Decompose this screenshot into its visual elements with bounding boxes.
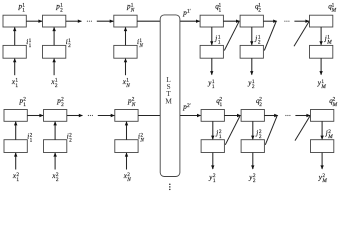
wire ellipsis to pN^1: [97, 20, 114, 22]
svg-text:M: M: [320, 84, 326, 90]
svg-text:1: 1: [219, 8, 222, 14]
svg-text:1: 1: [220, 102, 223, 108]
wire x2^1 to i2^1: [53, 59, 55, 75]
svg-text:N: N: [126, 177, 131, 183]
wire feedback from ellipsis to qM^2: [295, 116, 310, 141]
svg-text:M: M: [331, 8, 337, 14]
svg-text:2′: 2′: [187, 103, 191, 109]
svg-text:1: 1: [212, 84, 215, 90]
wire ellipsis to qM^1: [294, 20, 309, 22]
svg-text:M: M: [327, 134, 333, 140]
svg-text:N: N: [130, 8, 135, 14]
decoder hidden box q1^2: [201, 110, 224, 122]
LSTM block: [160, 15, 180, 177]
svg-text:1: 1: [29, 43, 32, 49]
svg-text:1: 1: [219, 134, 222, 140]
svg-text:2: 2: [61, 102, 64, 108]
wire x2^2 to i2^2: [54, 153, 56, 170]
svg-text:2: 2: [68, 43, 71, 49]
wire q1^2 to q2^2: [224, 115, 240, 117]
svg-text:M: M: [321, 178, 327, 184]
svg-text:j: j: [215, 129, 218, 137]
encoder hidden box p2^2: [44, 110, 67, 122]
decoder output box j1^1: [200, 45, 223, 58]
svg-text:2: 2: [69, 137, 72, 143]
wire LSTM to q1^1 (p^1 prime): [180, 20, 200, 22]
svg-text:M: M: [326, 40, 332, 46]
vertical ellipsis below LSTM: [169, 183, 171, 185]
wire qM^2 to jM^2: [321, 121, 323, 139]
svg-text:1: 1: [22, 8, 25, 14]
svg-text:2: 2: [55, 83, 58, 89]
wire qM^1 to jM^1: [320, 27, 322, 45]
wire q2^2 to j2^2: [252, 121, 254, 139]
ellipsis between p2^2 and pN^2: [88, 115, 89, 116]
wire x1^2 to i1^2: [15, 153, 17, 170]
wire j2^2 to y2^2: [252, 153, 254, 170]
svg-text:2: 2: [259, 102, 262, 108]
encoder input box i2^1: [43, 45, 66, 58]
wire feedback j2^1 to ellipsis: [264, 22, 276, 51]
svg-text:j: j: [254, 35, 257, 43]
wire j1^2 to y1^2: [212, 153, 214, 170]
ellipsis between p2^1 and pN^1: [87, 21, 88, 22]
decoder hidden box qM^1: [310, 15, 333, 27]
encoder hidden box p2^1: [43, 15, 66, 27]
wire q1^1 to j1^1: [211, 27, 213, 45]
svg-text:2: 2: [259, 134, 262, 140]
wire q2^1 to j2^1: [251, 27, 253, 45]
svg-text:M: M: [165, 96, 172, 105]
svg-text:2: 2: [258, 8, 261, 14]
svg-text:1′: 1′: [187, 9, 191, 15]
wire feedback j1^1 to q2^1: [224, 22, 239, 51]
wire iN^1 to pN^1: [125, 28, 127, 46]
wire p2^1 to ellipsis: [66, 20, 82, 22]
svg-text:1: 1: [218, 40, 221, 46]
wire p1^2 to p2^2: [27, 115, 43, 117]
svg-text:1: 1: [23, 102, 26, 108]
wire xN^2 to iN^2: [126, 153, 128, 170]
encoder hidden box pN^1: [114, 15, 137, 27]
decoder output box j1^2: [201, 140, 224, 153]
svg-text:N: N: [125, 83, 130, 89]
wire i1^1 to p1^1: [14, 28, 16, 46]
encoder input box i2^2: [44, 140, 67, 153]
wire ellipsis to pN^2: [98, 115, 115, 117]
decoder output box jM^1: [310, 45, 333, 58]
svg-text:1: 1: [213, 178, 216, 184]
decoder hidden box q2^2: [241, 110, 264, 122]
wire feedback j1^2 to q2^2: [225, 116, 240, 145]
wire ellipsis to qM^2: [295, 115, 310, 117]
wire i2^1 to p2^1: [53, 28, 55, 46]
ellipsis between q2^1 and qM^1: [284, 21, 285, 22]
decoder output box jM^2: [311, 140, 334, 153]
encoder hidden box p1^2: [4, 110, 27, 122]
svg-text:2: 2: [56, 177, 59, 183]
svg-text:1: 1: [16, 177, 19, 183]
svg-text:j: j: [325, 129, 328, 137]
decoder hidden box q1^1: [200, 15, 223, 27]
svg-text:1: 1: [30, 137, 33, 143]
svg-text:j: j: [255, 129, 258, 137]
wire xN^1 to iN^1: [125, 59, 127, 75]
wire i2^2 to p2^2: [54, 122, 56, 140]
wire q2^1 to ellipsis: [263, 20, 276, 22]
svg-text:j: j: [324, 35, 327, 43]
wire feedback j2^2 to ellipsis: [265, 116, 277, 145]
decoder hidden box qM^2: [311, 110, 334, 122]
wire iN^2 to pN^2: [126, 122, 128, 140]
wire jM^2 to yM^2: [321, 153, 323, 170]
decoder output box j2^2: [241, 140, 264, 153]
wire pN^2 to LSTM: [138, 115, 161, 117]
wire p2^2 to ellipsis: [67, 115, 83, 117]
svg-text:N: N: [139, 137, 144, 143]
encoder input box iN^1: [114, 45, 137, 58]
svg-text:2: 2: [60, 8, 63, 14]
wire jM^1 to yM^1: [320, 58, 322, 74]
encoder hidden box pN^2: [115, 110, 138, 122]
svg-text:2: 2: [258, 40, 261, 46]
wire LSTM to q1^2 (p^2 prime): [180, 115, 201, 117]
wire x1^1 to i1^1: [14, 59, 16, 75]
wire i1^2 to p1^2: [15, 122, 17, 140]
svg-text:N: N: [131, 102, 136, 108]
wire q1^1 to q2^1: [223, 20, 239, 22]
ellipsis between q2^2 and qM^2: [285, 115, 286, 116]
wire q2^2 to ellipsis: [264, 115, 277, 117]
svg-text:N: N: [138, 43, 143, 49]
encoder input box iN^2: [115, 140, 138, 153]
wire pN^1 to LSTM: [137, 20, 161, 22]
wire q1^2 to j1^2: [212, 121, 214, 139]
svg-text:2: 2: [253, 178, 256, 184]
svg-text:1: 1: [15, 83, 18, 89]
wire j1^1 to y1^1: [211, 58, 213, 74]
wire j2^1 to y2^1: [251, 58, 253, 74]
wire feedback from ellipsis to qM^1: [294, 22, 309, 47]
encoder hidden box p1^1: [3, 15, 26, 27]
decoder hidden box q2^1: [240, 15, 263, 27]
svg-text:j: j: [214, 35, 217, 43]
svg-text:2: 2: [252, 84, 255, 90]
wire p1^1 to p2^1: [26, 20, 42, 22]
encoder input box i1^2: [4, 140, 27, 153]
svg-text:M: M: [332, 102, 338, 108]
encoder input box i1^1: [3, 45, 26, 58]
decoder output box j2^1: [240, 45, 263, 58]
